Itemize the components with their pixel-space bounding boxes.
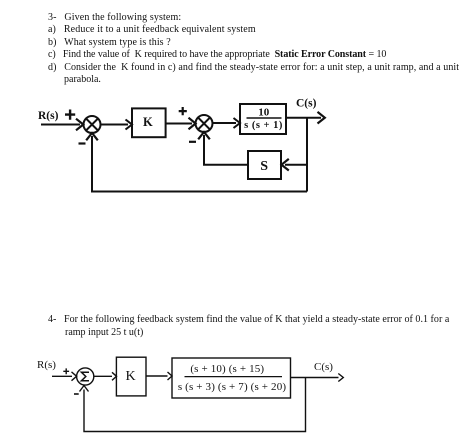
plus sign at summer S2 (179, 107, 187, 115)
summing junction S3 sigma (77, 368, 94, 385)
feedback wire d2 (84, 378, 306, 432)
arrowhead into S2 (189, 118, 196, 130)
minus sign at S2 (189, 141, 196, 143)
wire S3 to K d2 (94, 375, 112, 377)
block K d2 (116, 357, 146, 396)
wire S2 to plant (213, 122, 237, 124)
wire R(s) input (41, 124, 80, 126)
svg-text:R(s): R(s) (37, 359, 56, 371)
svg-text:10: 10 (258, 107, 270, 119)
svg-text:(s + 10) (s + 15): (s + 10) (s + 15) (190, 363, 264, 375)
svg-text:s (s + 3) (s + 7) (s + 20): s (s + 3) (s + 7) (s + 20) (178, 381, 287, 393)
wire G2 to output (291, 377, 339, 379)
arrowhead up into S3 (80, 386, 89, 392)
takeoff node vertical wire (306, 118, 308, 192)
arrowhead output C(s) d1 (318, 112, 325, 124)
wire R(s) input d2 (52, 375, 72, 377)
svg-text:s (s + 1): s (s + 1) (244, 120, 283, 131)
wire S block to S2 (204, 135, 248, 165)
wire K to S2 (165, 123, 192, 125)
svg-text:R(s): R(s) (38, 110, 59, 122)
block G1 10/s(s+1) (240, 104, 286, 134)
arrowhead into S1 (76, 119, 83, 131)
minus sign at S1 (79, 142, 86, 144)
outer feedback wire (92, 136, 307, 192)
arrowhead into K (126, 120, 133, 130)
label C(s) d2 (314, 361, 333, 373)
summing junction S2 (196, 115, 213, 132)
label R(s) d2 (37, 359, 56, 371)
svg-text:S: S (260, 159, 268, 174)
block K d1 (132, 108, 166, 137)
arrowhead into G2 (168, 372, 173, 380)
svg-text:C(s): C(s) (314, 361, 333, 373)
wire node to S block (285, 164, 307, 166)
arrowhead into S3 (72, 372, 77, 381)
wire K to G2 (146, 375, 168, 377)
svg-text:K: K (143, 115, 153, 129)
arrowhead up into S2 (198, 132, 210, 139)
plus sign at summer S3 (63, 368, 69, 374)
minus sign at S3 (74, 393, 79, 395)
label C(s) d1 (296, 98, 317, 110)
arrowhead up into S1 (86, 133, 98, 140)
wire S1 to K (101, 124, 129, 126)
arrowhead into plant block (234, 118, 241, 128)
svg-text:K: K (126, 369, 136, 384)
arrowhead into S block (282, 159, 289, 171)
problem 3 text (48, 12, 181, 23)
wire plant to output (286, 117, 321, 119)
label R(s) d1 (38, 110, 59, 122)
block S feedback (248, 151, 281, 179)
arrowhead into K d2 (112, 372, 117, 380)
svg-text:C(s): C(s) (296, 98, 317, 110)
summing junction S1 (84, 116, 101, 133)
problem 4 text (48, 314, 449, 325)
plus sign at summer S1 (65, 110, 75, 120)
block G2 transfer function (172, 358, 291, 398)
arrowhead output C(s) d2 (338, 374, 343, 382)
